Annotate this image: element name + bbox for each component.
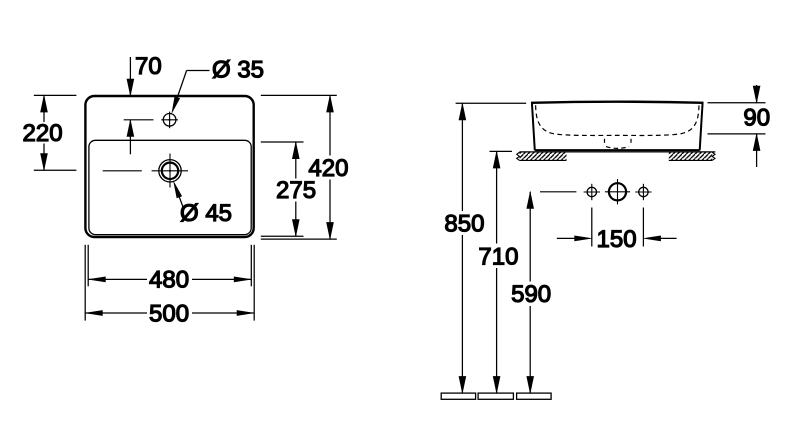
svg-text:Ø 45: Ø 45 — [180, 200, 232, 227]
svg-text:590: 590 — [511, 281, 551, 308]
svg-text:850: 850 — [444, 211, 484, 238]
svg-text:150: 150 — [597, 226, 637, 253]
svg-text:480: 480 — [149, 267, 189, 294]
svg-text:275: 275 — [276, 177, 316, 204]
svg-text:Ø 35: Ø 35 — [212, 57, 264, 84]
svg-text:500: 500 — [149, 301, 189, 328]
svg-text:70: 70 — [135, 53, 162, 80]
svg-text:90: 90 — [743, 105, 770, 132]
svg-text:220: 220 — [23, 120, 63, 147]
svg-text:710: 710 — [478, 243, 518, 270]
